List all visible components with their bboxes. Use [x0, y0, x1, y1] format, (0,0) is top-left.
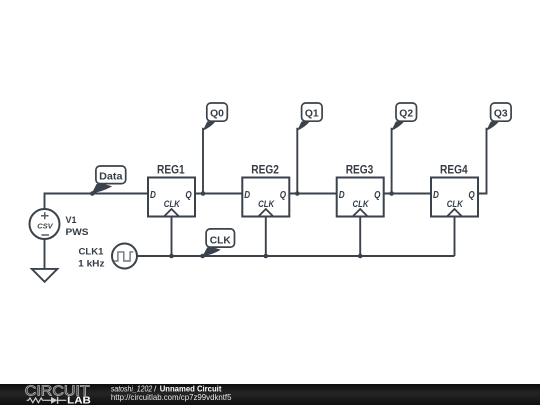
label REG2 [251, 165, 279, 177]
flag node Q1 [297, 103, 322, 131]
label V1 value PWS [66, 227, 89, 237]
svg-text:1 kHz: 1 kHz [78, 258, 105, 268]
flag node Q3 [486, 103, 511, 131]
wire REG1 CLK riser [171, 217, 173, 257]
D flip-flop REG3 [337, 178, 384, 217]
svg-text:CLK: CLK [164, 199, 181, 209]
label CLK1 name [79, 246, 104, 256]
CircuitLab logo wordmark CIRCUIT [25, 382, 90, 399]
flag node Q0 [203, 103, 227, 131]
CircuitLab logo wordmark LAB [67, 396, 91, 405]
D flip-flop REG2 [242, 178, 289, 217]
svg-text:REG1: REG1 [157, 165, 185, 177]
clock source CLK1 [112, 244, 137, 269]
junction CLK bus at REG3 [358, 254, 363, 259]
voltage source V1 [30, 209, 60, 239]
svg-text:CLK: CLK [353, 199, 370, 209]
junction node Q0 [201, 191, 206, 196]
junction node CLK at flag [200, 254, 205, 259]
wire clock bus from CLK1 [136, 255, 455, 257]
ground [32, 269, 58, 282]
junction CLK bus at REG1 [169, 254, 174, 259]
svg-text:Q: Q [280, 190, 286, 201]
label REG1 [157, 165, 185, 177]
D flip-flop REG1 [148, 178, 195, 217]
svg-text:REG3: REG3 [346, 165, 374, 177]
wire V1 bottom to ground [44, 239, 46, 269]
svg-text:D: D [244, 190, 250, 201]
svg-text:Q2: Q2 [399, 109, 413, 120]
wire riser node Q1 [296, 128, 298, 194]
flag node Q2 [392, 103, 417, 131]
wire riser node Q0 [202, 128, 204, 194]
svg-text:LAB: LAB [67, 396, 91, 405]
junction node Q2 [389, 191, 394, 196]
svg-text:http://circuitlab.com/cp7z99vd: http://circuitlab.com/cp7z99vdkntf5 [111, 392, 232, 402]
svg-text:D: D [150, 190, 156, 201]
wire REG3 CLK riser [359, 217, 361, 257]
wire riser node Q2 [391, 128, 393, 194]
wire V1 top to node Data [45, 194, 93, 210]
svg-text:Q0: Q0 [210, 109, 224, 120]
svg-text:Q: Q [185, 190, 191, 201]
footer URL line [111, 392, 232, 402]
svg-text:Q3: Q3 [494, 109, 508, 120]
wire REG4 CLK riser [454, 217, 456, 257]
svg-text:D: D [339, 190, 345, 201]
wire REG2 Q to REG3 D [289, 193, 336, 195]
label REG4 [440, 165, 468, 177]
wire REG1 Q to REG2 D [195, 193, 242, 195]
wire REG3 Q to REG4 D [384, 193, 431, 195]
svg-text:CLK: CLK [447, 199, 464, 209]
svg-text:PWS: PWS [66, 227, 89, 237]
svg-text:CLK: CLK [210, 235, 232, 246]
wire REG2 CLK riser [265, 217, 267, 257]
svg-text:CLK1: CLK1 [79, 246, 104, 256]
footer credit line: user and circuit name [111, 384, 222, 394]
svg-text:REG2: REG2 [251, 165, 279, 177]
flag node Data [92, 166, 126, 193]
label CLK1 value 1 kHz [78, 258, 105, 268]
label REG3 [346, 165, 374, 177]
D flip-flop REG4 [431, 178, 478, 217]
svg-text:V1: V1 [66, 215, 77, 225]
svg-text:Q: Q [468, 190, 474, 201]
wire node Data to REG1 pin D [92, 193, 148, 195]
svg-text:D: D [433, 190, 439, 201]
svg-text:REG4: REG4 [440, 165, 468, 177]
svg-text:Q: Q [374, 190, 380, 201]
junction node Q1 [295, 191, 300, 196]
wire REG4 Q to flag Q3 [478, 128, 487, 194]
label V1 name [66, 215, 77, 225]
flag node CLK [203, 229, 235, 256]
svg-text:CSV: CSV [37, 221, 53, 230]
junction CLK bus at REG2 [264, 254, 269, 259]
CircuitLab logo diode symbol [44, 397, 66, 404]
CircuitLab logo resistor symbol [27, 398, 45, 403]
junction node Data [90, 191, 95, 196]
svg-text:CLK: CLK [258, 199, 275, 209]
svg-text:Data: Data [99, 172, 123, 183]
svg-text:Q1: Q1 [305, 109, 319, 120]
